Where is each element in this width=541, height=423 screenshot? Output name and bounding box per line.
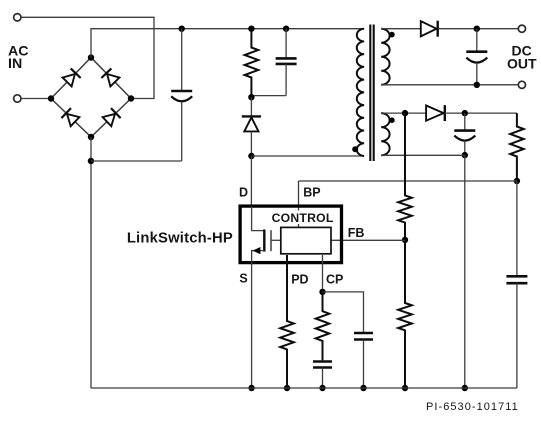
resistor R3 (divider upper) — [398, 113, 412, 240]
terminal J4 (DC-) — [518, 81, 525, 88]
polarity dot (bias winding) — [389, 117, 395, 123]
junction: S / GND — [248, 385, 254, 391]
junction: bias return / GND — [462, 385, 468, 391]
svg-text:S: S — [239, 271, 247, 285]
capacitor C5 (right branch) — [516, 181, 518, 276]
wire: D2 to DC+ terminal — [439, 28, 518, 30]
wire: bridge - down to GND rail — [90, 137, 92, 388]
junction: BP node — [514, 178, 520, 184]
polarity dot (secondary) — [389, 32, 395, 38]
wire: FB — [331, 239, 405, 241]
junction: bridge right node — [128, 95, 134, 101]
junction: bias return node — [462, 152, 468, 158]
polarity dot (primary) — [352, 146, 358, 152]
junction: bridge left node — [48, 95, 54, 101]
junction: C6 / GND — [319, 385, 325, 391]
capacitor C1 (bulk) — [181, 29, 183, 91]
diode BR1-b (AC R to +) — [107, 74, 119, 86]
transformer T1 bias winding — [381, 113, 389, 155]
label CONTROL background — [271, 211, 335, 225]
wire: D3 to R2 branch — [445, 112, 517, 114]
transistor Q1 (power MOSFET inside U1) — [252, 206, 265, 231]
wire: secondary return to DC- — [381, 84, 518, 86]
transformer T1 primary winding — [357, 29, 364, 156]
wire: drain node to primary bottom — [251, 155, 364, 157]
svg-text:CP: CP — [326, 273, 343, 287]
diode BR1-c (- to AC L) — [67, 114, 79, 126]
resistor R1 (clamp) — [245, 29, 259, 98]
junction: clamp node — [248, 94, 254, 100]
svg-text:IN: IN — [8, 56, 22, 72]
junction: bias / divider node — [402, 110, 408, 116]
wire: J2 to bridge left node — [21, 98, 51, 100]
transformer T1 core — [370, 25, 373, 162]
junction: FB node — [402, 237, 408, 243]
wire: bias return to GND rail — [464, 155, 466, 388]
junction: CP node — [319, 289, 325, 295]
junction: bridge - node — [88, 134, 94, 140]
resistor R4 (divider lower) — [398, 240, 412, 388]
capacitor C3 (output) — [476, 29, 478, 52]
svg-text:LinkSwitch-HP: LinkSwitch-HP — [127, 231, 233, 247]
junction: HV rail / C2 — [283, 26, 289, 32]
wire: bridge + to HV rail — [91, 29, 364, 58]
wire: BP rail — [299, 180, 517, 182]
wire: GND rail — [91, 387, 517, 389]
resistor R6 (CP) — [316, 292, 330, 360]
diode D2 (output rectifier) — [421, 21, 437, 36]
control block (inside U1) — [281, 227, 331, 253]
junction: HV rail / R1 — [248, 26, 254, 32]
resistor R5 (PD) — [280, 255, 294, 388]
diode D3 (bias rectifier) — [426, 106, 444, 121]
junction: drain node — [248, 153, 254, 159]
transformer T1 secondary winding — [381, 29, 389, 85]
wire: bias winding return — [381, 154, 465, 156]
wire: BP pin riser — [298, 181, 300, 227]
wire: J1 to bridge right node — [21, 17, 154, 98]
wire: drain node to D pin — [250, 156, 252, 206]
svg-text:D: D — [239, 186, 248, 200]
svg-text:OUT: OUT — [507, 56, 537, 72]
diode BR1-d (- to AC R) — [103, 114, 115, 126]
junction: bridge + node — [88, 54, 94, 60]
junction: bulk cap return — [88, 158, 94, 164]
junction: bias + node — [462, 110, 468, 116]
wire: CP node to C7 — [323, 292, 364, 331]
diode VR1 (clamp zener) — [250, 97, 252, 116]
diode BR1-a (AC L to +) — [63, 74, 75, 86]
terminal J3 (DC+) — [518, 25, 525, 32]
junction: C7 / GND — [360, 385, 366, 391]
svg-text:FB: FB — [348, 226, 365, 240]
svg-text:BP: BP — [303, 186, 320, 200]
wire: bulk cap return — [91, 160, 182, 162]
terminal J2 (AC input line 2) — [14, 95, 21, 102]
wire: bridge diamond — [51, 58, 131, 138]
junction: PD / GND — [284, 385, 290, 391]
junction: DC- node — [474, 82, 480, 88]
wire: secondary to D2 — [381, 28, 421, 30]
capacitor C6 (CP series) — [322, 360, 324, 362]
resistor R2 (BP feed) — [510, 113, 524, 181]
junction: DC+ node — [474, 26, 480, 32]
wire: C2 to clamp node — [251, 95, 286, 97]
svg-text:PD: PD — [291, 273, 308, 287]
capacitor C7 (CP parallel) — [363, 331, 365, 333]
wire: CP pin — [322, 255, 324, 292]
terminal J1 (AC input line 1) — [14, 14, 21, 21]
capacitor C4 (bias filter) — [464, 113, 466, 131]
wire: S pin to GND rail — [251, 263, 253, 389]
wire: bias winding to D3 — [381, 112, 426, 114]
junction: divider / GND — [402, 385, 408, 391]
capacitor C2 (clamp) — [285, 29, 287, 59]
junction: HV rail / C1 — [179, 26, 185, 32]
svg-text:PI-6530-101711: PI-6530-101711 — [426, 401, 519, 413]
IC U1 LinkSwitch-HP outline — [240, 206, 341, 263]
svg-text:CONTROL: CONTROL — [272, 211, 334, 225]
